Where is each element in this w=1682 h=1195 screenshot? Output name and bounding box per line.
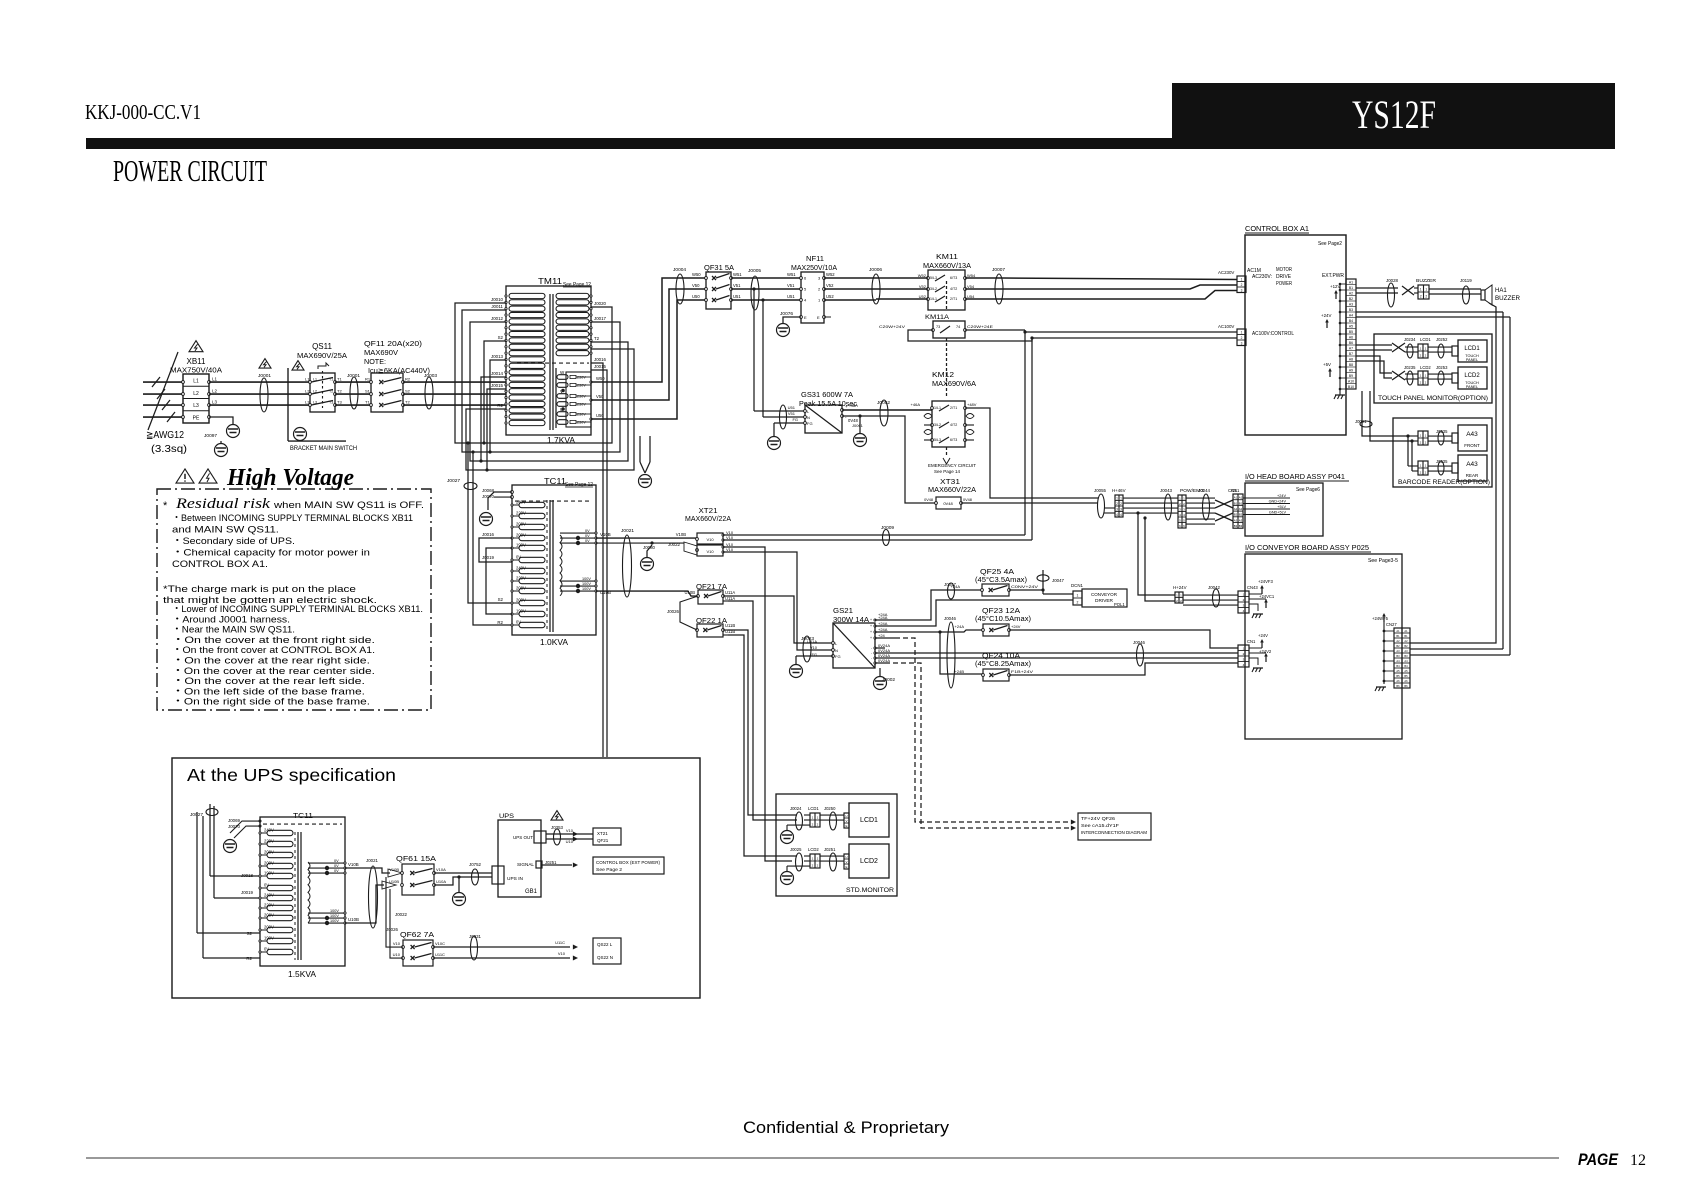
svg-text:LCD2: LCD2 xyxy=(1420,365,1431,370)
svg-text:A5: A5 xyxy=(1349,324,1353,328)
svg-text:MOTOR: MOTOR xyxy=(1276,267,1292,273)
svg-text:LCD1: LCD1 xyxy=(808,806,819,811)
svg-text:0V: 0V xyxy=(264,883,269,888)
svg-text:V10A: V10A xyxy=(436,867,446,872)
svg-text:See Page2: See Page2 xyxy=(1318,241,1342,247)
svg-text:QF24 10A: QF24 10A xyxy=(982,651,1020,660)
svg-text:J0012: J0012 xyxy=(491,316,504,321)
svg-text:2: 2 xyxy=(1420,295,1422,299)
svg-text:V10B: V10B xyxy=(348,862,359,867)
svg-text:240V: 240V xyxy=(516,566,526,571)
svg-text:208V: 208V xyxy=(264,850,274,855)
svg-text:S2: S2 xyxy=(247,931,253,936)
svg-text:V10: V10 xyxy=(558,951,566,956)
svg-text:73: 73 xyxy=(936,325,940,329)
svg-text:+24V: +24V xyxy=(1277,494,1286,498)
svg-text:A5: A5 xyxy=(1404,669,1408,673)
svg-text:PANEL: PANEL xyxy=(1466,385,1478,389)
svg-text:+46A: +46A xyxy=(848,403,858,408)
svg-text:B3: B3 xyxy=(1349,308,1353,312)
svg-text:At the UPS specification: At the UPS specification xyxy=(187,765,396,785)
svg-text:A7: A7 xyxy=(1349,346,1353,350)
svg-text:GND+5LV: GND+5LV xyxy=(1269,511,1287,515)
svg-text:+5LV: +5LV xyxy=(1277,505,1286,509)
svg-text:CN1: CN1 xyxy=(1231,488,1240,493)
svg-text:0V: 0V xyxy=(585,534,590,538)
svg-text:See Page6: See Page6 xyxy=(1296,487,1320,493)
svg-text:POWER CIRCUIT: POWER CIRCUIT xyxy=(113,153,267,188)
svg-text:1: 1 xyxy=(1425,288,1427,292)
svg-text:A10: A10 xyxy=(1348,379,1354,383)
svg-text:+24A: +24A xyxy=(951,584,961,589)
svg-text:(45°C3.5Amax): (45°C3.5Amax) xyxy=(975,576,1027,584)
svg-text:V10C: V10C xyxy=(435,941,445,946)
svg-text:+24B: +24B xyxy=(955,669,965,674)
svg-text:J0046: J0046 xyxy=(944,616,957,621)
svg-text:V50: V50 xyxy=(692,283,700,288)
svg-text:A6: A6 xyxy=(1396,679,1400,683)
svg-text:KKJ-000-CC.V1: KKJ-000-CC.V1 xyxy=(85,100,201,124)
svg-text:QF11 20A(x20): QF11 20A(x20) xyxy=(364,339,423,348)
svg-text:CONTROL BOX A1: CONTROL BOX A1 xyxy=(1245,224,1309,233)
svg-text:V10B: V10B xyxy=(600,532,611,537)
svg-text:LCD2: LCD2 xyxy=(1464,373,1480,379)
svg-text:LCD2: LCD2 xyxy=(808,847,819,852)
svg-text:74: 74 xyxy=(956,325,960,329)
svg-text:GS21: GS21 xyxy=(833,608,853,615)
svg-text:・On the right side of the base: ・On the right side of the base frame. xyxy=(172,697,370,708)
svg-text:J0013: J0013 xyxy=(491,354,504,359)
svg-text:V10: V10 xyxy=(726,547,734,552)
svg-text:200V: 200V xyxy=(516,533,526,538)
svg-text:100V: 100V xyxy=(582,582,591,586)
svg-text:J0119: J0119 xyxy=(1460,278,1472,283)
svg-text:FRONT: FRONT xyxy=(1464,443,1480,448)
svg-text:J0061: J0061 xyxy=(852,423,864,428)
svg-text:J0252: J0252 xyxy=(1436,337,1448,342)
svg-text:QF21: QF21 xyxy=(597,838,609,843)
svg-text:J0021: J0021 xyxy=(366,858,379,863)
svg-text:J0234: J0234 xyxy=(1404,337,1416,342)
svg-text:J0070: J0070 xyxy=(228,824,241,829)
svg-text:QF25 4A: QF25 4A xyxy=(980,567,1014,576)
svg-text:L1: L1 xyxy=(313,378,317,382)
svg-text:H+46V: H+46V xyxy=(1112,488,1126,493)
svg-text:I/O HEAD BOARD ASSY P041: I/O HEAD BOARD ASSY P041 xyxy=(1245,472,1345,481)
svg-text:NF11: NF11 xyxy=(806,254,824,263)
svg-text:A2: A2 xyxy=(1404,639,1408,643)
svg-text:MAX690V/6A: MAX690V/6A xyxy=(932,379,976,388)
svg-text:LCD1: LCD1 xyxy=(860,817,878,824)
svg-text:J0017: J0017 xyxy=(594,316,607,321)
svg-text:LCD2: LCD2 xyxy=(860,858,878,865)
svg-text:W52: W52 xyxy=(826,272,835,277)
svg-text:+46A: +46A xyxy=(911,402,921,407)
svg-text:W50: W50 xyxy=(692,272,701,277)
svg-text:100V: 100V xyxy=(582,587,591,591)
svg-text:4/T2: 4/T2 xyxy=(950,423,957,427)
svg-text:L3: L3 xyxy=(313,401,317,405)
svg-text:TF+24V QF26: TF+24V QF26 xyxy=(1081,816,1116,821)
svg-text:V10: V10 xyxy=(566,828,574,833)
svg-text:W51: W51 xyxy=(733,272,742,277)
svg-text:1.0KVA: 1.0KVA xyxy=(540,637,568,647)
svg-text:A3: A3 xyxy=(1234,518,1238,522)
svg-text:U51: U51 xyxy=(733,294,741,299)
svg-text:V51: V51 xyxy=(787,283,795,288)
svg-text:B3: B3 xyxy=(1396,654,1400,658)
svg-text:5/L3: 5/L3 xyxy=(930,276,937,280)
svg-text:V52: V52 xyxy=(826,283,834,288)
svg-text:A1: A1 xyxy=(1349,280,1353,284)
svg-text:A3: A3 xyxy=(1404,649,1408,653)
svg-text:V51: V51 xyxy=(788,411,796,416)
svg-text:J0026: J0026 xyxy=(667,609,680,614)
svg-text:0V: 0V xyxy=(264,947,269,952)
svg-text:0V48: 0V48 xyxy=(943,501,953,506)
svg-text:N: N xyxy=(807,415,810,420)
svg-text:J0052: J0052 xyxy=(877,400,890,406)
svg-text:2: 2 xyxy=(1241,336,1243,340)
svg-text:J0010: J0010 xyxy=(491,297,504,302)
svg-text:U50: U50 xyxy=(692,294,700,299)
svg-text:NOTE:: NOTE: xyxy=(364,357,386,366)
svg-text:MAX690V: MAX690V xyxy=(364,348,398,357)
svg-text:J0235: J0235 xyxy=(1404,365,1416,370)
svg-text:V10: V10 xyxy=(706,549,714,554)
svg-text:B2: B2 xyxy=(1239,513,1243,517)
svg-text:T3: T3 xyxy=(337,400,342,405)
svg-text:CONTROL BOX (EXT POWER): CONTROL BOX (EXT POWER) xyxy=(596,860,661,865)
svg-text:PANEL: PANEL xyxy=(1466,358,1478,362)
svg-text:1: 1 xyxy=(1241,330,1243,334)
svg-text:A1: A1 xyxy=(1404,629,1408,633)
svg-text:B5: B5 xyxy=(1349,330,1353,334)
svg-text:・Between INCOMING SUPPLY TERMI: ・Between INCOMING SUPPLY TERMINAL BLOCKS… xyxy=(172,513,413,524)
svg-text:+48V: +48V xyxy=(967,402,977,407)
svg-text:1: 1 xyxy=(1116,496,1118,500)
svg-text:J0019: J0019 xyxy=(241,890,254,895)
svg-text:J0028: J0028 xyxy=(1386,278,1399,283)
svg-text:J0022: J0022 xyxy=(395,912,408,917)
svg-text:0V: 0V xyxy=(585,529,590,533)
svg-text:J0251: J0251 xyxy=(824,847,836,852)
svg-text:2: 2 xyxy=(1120,502,1122,506)
svg-text:2: 2 xyxy=(1425,295,1427,299)
svg-text:TC11: TC11 xyxy=(293,811,313,820)
svg-text:AC100V: AC100V xyxy=(1218,324,1234,329)
svg-text:J0042: J0042 xyxy=(1208,585,1221,590)
svg-text:R2: R2 xyxy=(405,377,411,382)
svg-text:J0069: J0069 xyxy=(228,818,241,823)
svg-text:A1: A1 xyxy=(1396,629,1400,633)
svg-text:A4: A4 xyxy=(1404,659,1408,663)
svg-text:J0022: J0022 xyxy=(668,542,681,547)
svg-text:1: 1 xyxy=(1420,288,1422,292)
svg-text:A9: A9 xyxy=(1349,368,1353,372)
svg-text:3: 3 xyxy=(1116,507,1118,511)
svg-text:R2: R2 xyxy=(497,403,503,408)
svg-text:L2: L2 xyxy=(193,391,199,397)
svg-text:V10: V10 xyxy=(706,537,714,542)
svg-text:0V: 0V xyxy=(334,869,339,873)
svg-text:U11B: U11B xyxy=(725,623,735,628)
svg-text:B4: B4 xyxy=(1404,664,1408,668)
svg-text:V10B: V10B xyxy=(389,867,399,872)
svg-text:A43: A43 xyxy=(1466,461,1478,468)
svg-text:POL1: POL1 xyxy=(1114,602,1125,607)
svg-text:230V: 230V xyxy=(577,413,586,417)
svg-text:KM12: KM12 xyxy=(932,370,954,379)
svg-text:+24A: +24A xyxy=(878,621,888,626)
svg-text:FG: FG xyxy=(792,417,798,422)
svg-text:+5V: +5V xyxy=(1323,362,1331,367)
svg-text:1.5KVA: 1.5KVA xyxy=(288,969,316,979)
svg-text:T2: T2 xyxy=(329,390,333,394)
svg-text:1: 1 xyxy=(1241,277,1243,281)
svg-text:U51: U51 xyxy=(787,294,795,299)
svg-text:+24A: +24A xyxy=(955,624,965,629)
svg-text:190V: 190V xyxy=(516,543,526,548)
svg-text:INTERCONNECTION DIAGRAM: INTERCONNECTION DIAGRAM xyxy=(1081,830,1147,835)
svg-text:L1: L1 xyxy=(305,377,310,382)
svg-text:S2: S2 xyxy=(405,389,411,394)
svg-text:B5: B5 xyxy=(1396,674,1400,678)
svg-text:when MAIN SW QS11 is OFF.: when MAIN SW QS11 is OFF. xyxy=(273,500,424,511)
svg-text:LCD1: LCD1 xyxy=(1464,346,1480,352)
svg-text:T1: T1 xyxy=(365,400,370,405)
svg-text:6/T3: 6/T3 xyxy=(950,438,957,442)
svg-text:S1: S1 xyxy=(365,389,371,394)
svg-text:0V24A: 0V24A xyxy=(878,658,890,663)
svg-text:U10B: U10B xyxy=(348,917,359,922)
svg-text:0V48: 0V48 xyxy=(963,498,972,502)
svg-text:4: 4 xyxy=(1116,513,1118,517)
svg-text:220V: 220V xyxy=(264,903,274,908)
svg-text:L1: L1 xyxy=(212,377,218,382)
svg-text:V10: V10 xyxy=(393,941,401,946)
svg-text:J0044: J0044 xyxy=(1198,488,1211,493)
svg-text:+: + xyxy=(870,618,872,622)
svg-text:Confidential & Proprietary: Confidential & Proprietary xyxy=(743,1118,950,1137)
svg-text:+: + xyxy=(870,624,872,628)
svg-text:J0006: J0006 xyxy=(869,267,882,273)
svg-text:U51: U51 xyxy=(788,405,796,410)
svg-text:0V: 0V xyxy=(334,864,339,868)
svg-text:208V: 208V xyxy=(516,586,526,591)
svg-text:STD.MONITOR: STD.MONITOR xyxy=(846,887,894,894)
svg-text:0V: 0V xyxy=(585,539,590,543)
svg-text:(3.3sq): (3.3sq) xyxy=(151,444,187,455)
svg-text:J0055: J0055 xyxy=(1094,488,1107,493)
svg-text:3/L2: 3/L2 xyxy=(930,287,937,291)
svg-text:J0068: J0068 xyxy=(482,488,495,493)
svg-text:E: E xyxy=(804,315,807,320)
svg-text:2/T1: 2/T1 xyxy=(950,406,957,410)
svg-text:*: * xyxy=(163,500,168,512)
svg-text:B5: B5 xyxy=(1404,674,1408,678)
svg-text:+24VF3: +24VF3 xyxy=(1258,579,1273,584)
svg-text:3/L2: 3/L2 xyxy=(934,423,941,427)
svg-text:See Page 2: See Page 2 xyxy=(596,867,623,872)
svg-text:190V: 190V xyxy=(516,609,526,614)
svg-text:+24VC1: +24VC1 xyxy=(1259,594,1275,599)
svg-text:H+24V: H+24V xyxy=(1173,585,1187,590)
svg-text:KM11: KM11 xyxy=(936,252,958,261)
svg-text:0V48: 0V48 xyxy=(924,498,933,502)
svg-text:4/T2: 4/T2 xyxy=(950,287,957,291)
svg-text:CN43: CN43 xyxy=(1247,585,1258,590)
svg-text:E: E xyxy=(817,315,820,320)
svg-text:3: 3 xyxy=(1241,288,1243,292)
svg-text:J0250: J0250 xyxy=(824,806,836,811)
svg-text:1/L1: 1/L1 xyxy=(930,297,937,301)
svg-text:A6: A6 xyxy=(1404,679,1408,683)
svg-text:A3: A3 xyxy=(1396,649,1400,653)
svg-text:B1: B1 xyxy=(1396,634,1400,638)
svg-text:200V: 200V xyxy=(516,598,526,603)
svg-text:U: U xyxy=(845,855,847,859)
svg-text:CN27: CN27 xyxy=(1386,622,1397,627)
svg-text:QF31 5A: QF31 5A xyxy=(704,263,734,272)
svg-text:220V: 220V xyxy=(516,511,526,516)
svg-text:1: 1 xyxy=(1077,594,1079,598)
svg-text:B3: B3 xyxy=(1239,524,1243,528)
svg-text:200V: 200V xyxy=(264,861,274,866)
svg-text:E: E xyxy=(845,824,847,828)
svg-text:230V: 230V xyxy=(577,403,586,407)
svg-text:J0020: J0020 xyxy=(594,301,607,306)
svg-text:J0018: J0018 xyxy=(241,873,254,878)
svg-text:208V: 208V xyxy=(264,913,274,918)
svg-text:MAX750V/40A: MAX750V/40A xyxy=(170,366,222,375)
svg-text:240V: 240V xyxy=(264,893,274,898)
svg-text:AC230V:: AC230V: xyxy=(1252,274,1272,280)
svg-text:J0026: J0026 xyxy=(386,927,399,932)
svg-text:(45°C10.5Amax): (45°C10.5Amax) xyxy=(975,615,1031,623)
svg-text:6/T3: 6/T3 xyxy=(950,276,957,280)
svg-text:YS12F: YS12F xyxy=(1352,92,1436,137)
svg-text:J0027: J0027 xyxy=(447,478,460,484)
svg-text:B1: B1 xyxy=(1239,501,1243,505)
svg-text:100V: 100V xyxy=(330,914,339,918)
svg-text:TM11: TM11 xyxy=(538,276,562,286)
svg-text:A4: A4 xyxy=(1396,659,1400,663)
svg-text:HA1: HA1 xyxy=(1495,288,1507,294)
svg-text:V: V xyxy=(845,860,847,864)
svg-text:U11C: U11C xyxy=(555,940,565,945)
svg-text:220V: 220V xyxy=(516,576,526,581)
svg-text:B6: B6 xyxy=(1349,341,1353,345)
svg-text:12: 12 xyxy=(1630,1152,1646,1169)
svg-text:B3: B3 xyxy=(1404,654,1408,658)
svg-text:FG: FG xyxy=(835,654,841,659)
svg-text:B4: B4 xyxy=(1349,319,1353,323)
svg-text:B10: B10 xyxy=(1348,385,1354,389)
svg-text:230V: 230V xyxy=(577,395,586,399)
svg-text:V10B: V10B xyxy=(676,532,686,537)
svg-text:L3: L3 xyxy=(193,403,199,409)
svg-text:SIGNAL: SIGNAL xyxy=(517,862,535,867)
svg-text:S2: S2 xyxy=(498,597,504,602)
svg-text:T3: T3 xyxy=(329,401,333,405)
svg-text:QF23 12A: QF23 12A xyxy=(982,606,1020,615)
svg-text:V10: V10 xyxy=(810,645,818,650)
svg-text:V51: V51 xyxy=(733,283,741,288)
svg-text:GB1: GB1 xyxy=(525,889,538,895)
svg-text:5/L3: 5/L3 xyxy=(934,438,941,442)
svg-text:MAX660V/22A: MAX660V/22A xyxy=(928,485,976,494)
svg-text:U10: U10 xyxy=(566,839,574,844)
svg-text:190V: 190V xyxy=(264,936,274,941)
svg-text:+24V: +24V xyxy=(1321,313,1331,318)
svg-text:T2: T2 xyxy=(594,336,600,341)
svg-text:3: 3 xyxy=(1120,507,1122,511)
svg-text:230V: 230V xyxy=(577,376,586,380)
svg-text:J0014: J0014 xyxy=(491,371,504,376)
svg-text:J0011: J0011 xyxy=(491,304,503,309)
svg-text:A43: A43 xyxy=(1466,431,1478,438)
svg-text:1/L1: 1/L1 xyxy=(934,406,941,410)
svg-text:and MAIN SW QS11.: and MAIN SW QS11. xyxy=(172,525,279,536)
svg-text:DRIVE: DRIVE xyxy=(1276,274,1292,280)
svg-text:A3: A3 xyxy=(1349,302,1353,306)
svg-text:+12V: +12V xyxy=(1330,284,1340,289)
svg-text:REAR: REAR xyxy=(1466,473,1479,478)
svg-text:A6: A6 xyxy=(1349,335,1353,339)
svg-text:U11A: U11A xyxy=(807,639,817,644)
svg-text:See cA15.dY1F: See cA15.dY1F xyxy=(1081,823,1119,828)
svg-text:A2: A2 xyxy=(1239,507,1243,511)
svg-text:CONVEYOR: CONVEYOR xyxy=(1091,592,1118,597)
svg-text:J0097: J0097 xyxy=(204,433,217,439)
svg-text:B2: B2 xyxy=(1349,297,1353,301)
svg-text:AC230V: AC230V xyxy=(1218,270,1234,275)
svg-text:U11C: U11C xyxy=(435,952,445,957)
svg-text:U10B: U10B xyxy=(685,590,696,595)
svg-text:J0047: J0047 xyxy=(1052,578,1065,583)
svg-text:A2: A2 xyxy=(1349,291,1353,295)
svg-text:QF61 15A: QF61 15A xyxy=(396,854,436,863)
svg-text:1: 1 xyxy=(1120,496,1122,500)
svg-text:*The charge mark is put on the: *The charge mark is put on the place xyxy=(163,584,356,595)
svg-text:100V: 100V xyxy=(582,577,591,581)
svg-text:BRACKET MAIN SWITCH: BRACKET MAIN SWITCH xyxy=(290,445,357,452)
svg-text:L2: L2 xyxy=(313,390,317,394)
svg-text:2: 2 xyxy=(1241,283,1243,287)
svg-text:B2: B2 xyxy=(1404,644,1408,648)
svg-text:EXT.PWR: EXT.PWR xyxy=(1322,273,1344,279)
svg-text:PE: PE xyxy=(193,415,200,421)
svg-text:2: 2 xyxy=(1116,502,1118,506)
svg-text:AC100V:CONTROL: AC100V:CONTROL xyxy=(1252,331,1294,337)
svg-text:230V: 230V xyxy=(577,421,586,425)
svg-text:+24V: +24V xyxy=(1258,633,1268,638)
svg-text:J0001: J0001 xyxy=(347,373,360,379)
svg-text:High Voltage: High Voltage xyxy=(226,465,354,491)
svg-text:POWER: POWER xyxy=(1276,281,1292,287)
svg-text:L1: L1 xyxy=(193,379,199,385)
svg-text:J0024: J0024 xyxy=(790,806,802,811)
svg-text:0V: 0V xyxy=(516,555,521,560)
svg-text:220V: 220V xyxy=(264,839,274,844)
svg-text:MAX660V/22A: MAX660V/22A xyxy=(685,516,731,523)
svg-text:J0015: J0015 xyxy=(594,364,607,369)
svg-text:200V: 200V xyxy=(264,925,274,930)
svg-text:B6: B6 xyxy=(1404,684,1408,688)
svg-text:TOUCH PANEL MONITOR(OPTION): TOUCH PANEL MONITOR(OPTION) xyxy=(1378,395,1488,402)
svg-text:T1: T1 xyxy=(329,378,333,382)
